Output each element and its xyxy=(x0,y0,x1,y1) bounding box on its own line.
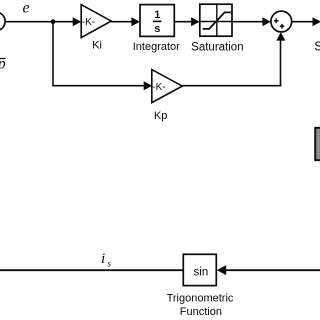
integrator block 1/s xyxy=(140,5,174,37)
sum block (circle, + +) xyxy=(271,11,292,32)
svg-text:S: S xyxy=(314,40,320,54)
wire: Ki to Integrator xyxy=(111,21,133,23)
input port (partial ellipse at left edge) xyxy=(0,12,5,31)
svg-text:s: s xyxy=(108,259,112,269)
node: branch junction on e wire xyxy=(51,19,56,24)
svg-text:-K-: -K- xyxy=(152,82,165,93)
scope block (grey, cut at right edge) xyxy=(315,128,320,160)
svg-text:Kp: Kp xyxy=(154,110,167,122)
wire: Sum output to right edge xyxy=(292,21,314,23)
svg-text:i: i xyxy=(101,251,105,267)
svg-text:Function: Function xyxy=(180,306,222,318)
wire: Kp output right then up into Sum xyxy=(182,85,281,87)
wire: Saturation to Sum xyxy=(232,21,264,23)
svg-text:Ki: Ki xyxy=(92,40,102,52)
trigonometric function block sin xyxy=(183,254,216,285)
svg-text:1: 1 xyxy=(154,9,160,21)
svg-text:s: s xyxy=(154,23,160,35)
gain Ki (triangle) xyxy=(81,5,111,38)
wire: trig function output to left edge xyxy=(0,269,183,271)
wire e: input port to Ki gain xyxy=(5,21,75,23)
svg-text:e: e xyxy=(23,0,30,17)
svg-text:-K-: -K- xyxy=(82,17,95,28)
gain Kp (triangle) xyxy=(152,70,183,103)
svg-text:Trigonometric: Trigonometric xyxy=(167,292,234,304)
wire: Integrator to Saturation xyxy=(174,21,192,23)
svg-text:Saturation: Saturation xyxy=(191,42,243,54)
wire: left to Kp gain input xyxy=(52,85,145,87)
wire: junction down to Kp row xyxy=(52,22,54,86)
wire: right edge into trig function (leftward arrow) xyxy=(223,269,320,271)
signal label p (overlined, cut at left edge) xyxy=(0,55,6,72)
svg-text:sin: sin xyxy=(194,266,209,278)
saturation block xyxy=(191,4,243,53)
svg-text:Integrator: Integrator xyxy=(133,41,180,53)
